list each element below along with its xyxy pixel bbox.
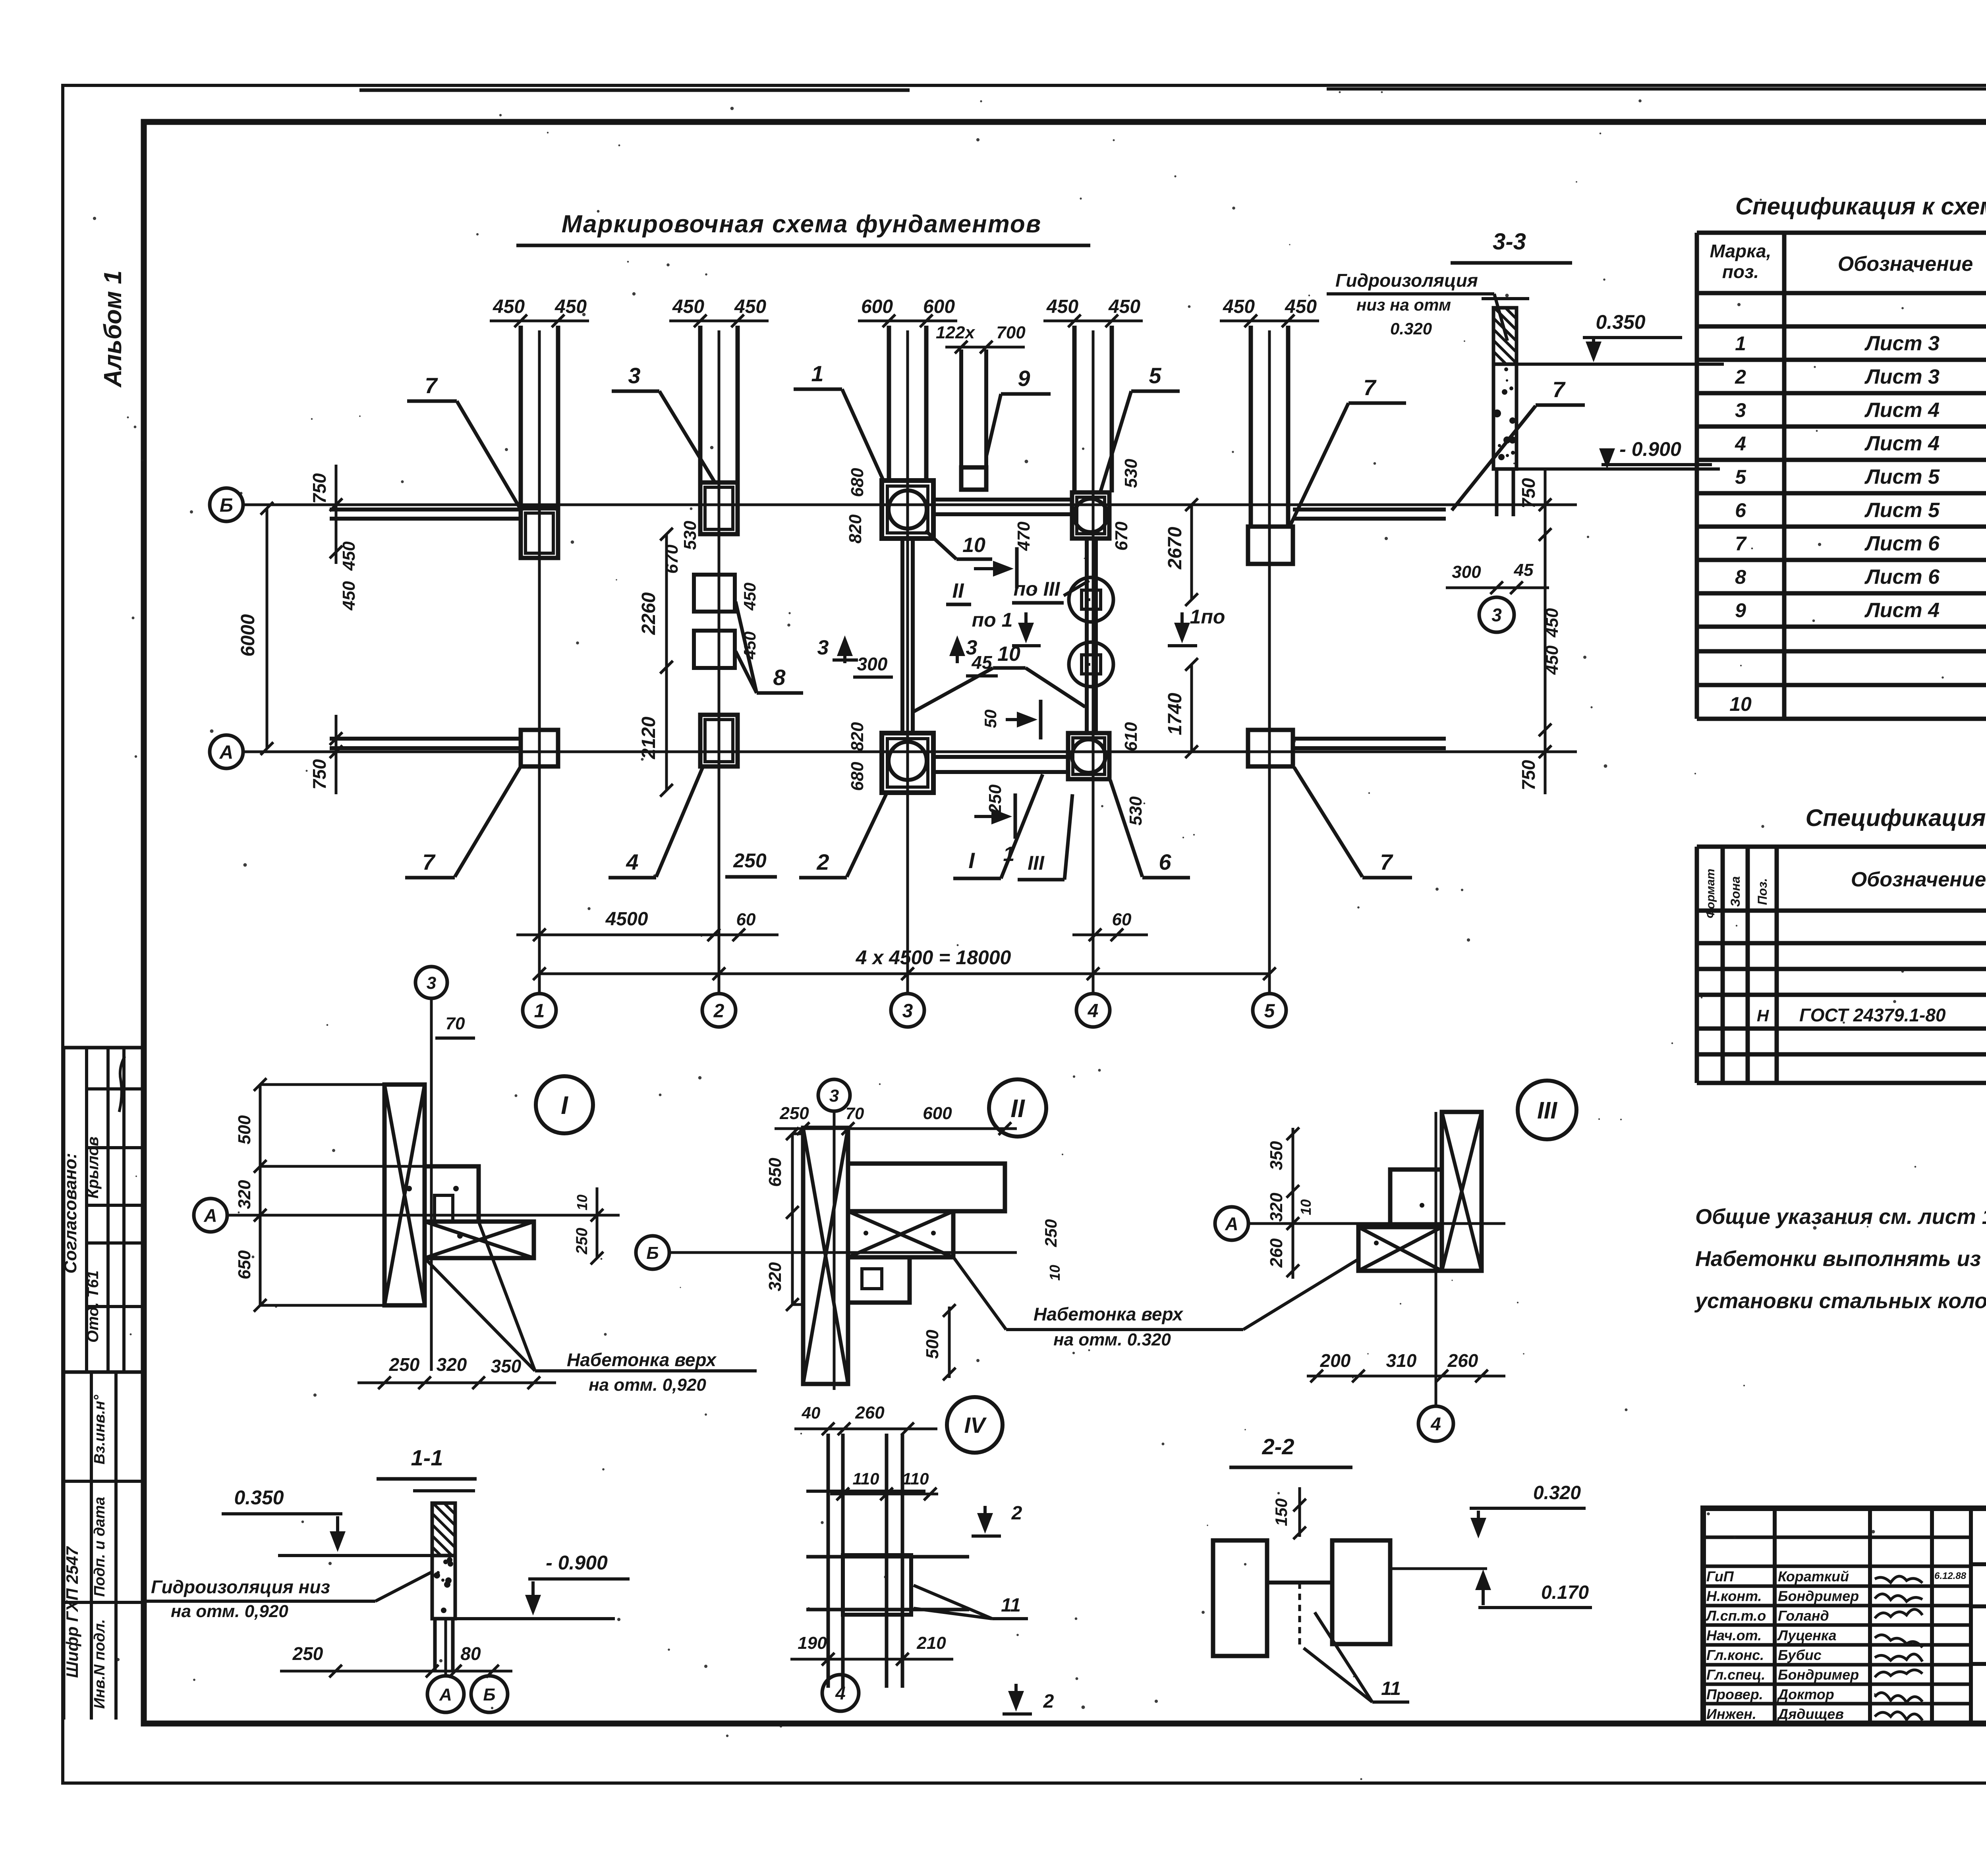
svg-text:300: 300 (1452, 562, 1481, 582)
svg-text:3-3: 3-3 (1493, 229, 1526, 255)
svg-text:Общие указания см. лист 1.: Общие указания см. лист 1. (1695, 1205, 1986, 1229)
svg-text:Обозначение: Обозначение (1838, 253, 1973, 276)
svg-text:на отм. 0,920: на отм. 0,920 (171, 1602, 288, 1621)
svg-text:530: 530 (680, 521, 700, 550)
svg-text:6.12.88: 6.12.88 (1934, 1571, 1967, 1581)
svg-text:10: 10 (574, 1195, 590, 1210)
svg-text:6000: 6000 (238, 614, 259, 656)
svg-text:Б: Б (220, 495, 233, 516)
svg-text:Голанд: Голанд (1778, 1608, 1829, 1624)
svg-text:7: 7 (1552, 377, 1566, 402)
svg-text:Гидроизоляция: Гидроизоляция (1335, 270, 1478, 291)
svg-text:450: 450 (1542, 608, 1562, 638)
svg-text:4: 4 (1735, 432, 1746, 455)
svg-text:7: 7 (1735, 533, 1747, 555)
svg-text:2: 2 (816, 849, 829, 874)
svg-text:260: 260 (1447, 1350, 1478, 1371)
svg-text:Доктор: Доктор (1777, 1686, 1834, 1702)
svg-text:700: 700 (996, 323, 1026, 342)
svg-text:3: 3 (1735, 399, 1746, 421)
svg-text:1: 1 (1735, 332, 1746, 355)
svg-text:Спецификация на элемент констр: Спецификация на элемент конструкции (1806, 805, 1986, 831)
svg-text:Набетонка верх: Набетонка верх (567, 1349, 717, 1370)
svg-text:450: 450 (1542, 645, 1562, 675)
svg-text:10: 10 (1729, 693, 1752, 715)
svg-text:4: 4 (626, 849, 638, 874)
svg-text:Инжен.: Инжен. (1706, 1706, 1756, 1722)
svg-text:50: 50 (981, 710, 1000, 728)
svg-text:Провер.: Провер. (1706, 1686, 1763, 1702)
svg-text:260: 260 (855, 1403, 885, 1422)
svg-text:III: III (1028, 852, 1045, 874)
svg-text:6: 6 (1735, 499, 1746, 521)
svg-text:7: 7 (1380, 849, 1393, 874)
svg-text:Б: Б (483, 1685, 495, 1704)
svg-text:Согласовано:: Согласовано: (61, 1153, 80, 1274)
svg-text:Марка,: Марка, (1710, 241, 1772, 261)
svg-text:Лист 3: Лист 3 (1864, 332, 1940, 355)
svg-text:А: А (439, 1685, 452, 1704)
svg-text:1: 1 (1003, 843, 1015, 866)
svg-text:А: А (203, 1205, 217, 1226)
svg-text:7: 7 (1363, 375, 1377, 400)
svg-text:70: 70 (846, 1104, 864, 1123)
svg-text:11: 11 (1381, 1678, 1401, 1699)
svg-text:0.320: 0.320 (1390, 319, 1432, 338)
svg-text:6: 6 (1159, 849, 1171, 874)
svg-text:750: 750 (309, 759, 330, 789)
svg-text:450: 450 (1108, 296, 1140, 317)
svg-text:5: 5 (1735, 466, 1746, 488)
svg-text:500: 500 (235, 1115, 254, 1145)
svg-text:250: 250 (1041, 1219, 1060, 1247)
svg-text:10: 10 (962, 534, 985, 557)
svg-text:I: I (561, 1091, 568, 1119)
svg-text:600: 600 (923, 1104, 952, 1123)
svg-text:122x: 122x (936, 323, 975, 342)
svg-text:2: 2 (1735, 366, 1746, 388)
svg-text:Лист 5: Лист 5 (1864, 465, 1940, 488)
svg-text:Бубис: Бубис (1778, 1647, 1822, 1663)
svg-text:250: 250 (573, 1228, 591, 1255)
svg-text:680: 680 (848, 762, 867, 791)
svg-text:250: 250 (292, 1643, 323, 1664)
svg-text:670: 670 (662, 544, 682, 574)
svg-text:2260: 2260 (638, 592, 659, 635)
svg-text:470: 470 (1014, 521, 1034, 551)
svg-text:Вз.инв.н°: Вз.инв.н° (91, 1395, 108, 1465)
svg-text:320: 320 (437, 1354, 467, 1375)
svg-text:Шифр ГХП 2547: Шифр ГХП 2547 (63, 1546, 81, 1678)
svg-text:250: 250 (779, 1104, 809, 1123)
svg-text:1: 1 (534, 1000, 545, 1021)
svg-text:II: II (952, 579, 964, 602)
svg-text:Бондример: Бондример (1778, 1667, 1859, 1683)
svg-text:5: 5 (1149, 363, 1161, 388)
svg-text:320: 320 (1267, 1193, 1286, 1222)
svg-text:190: 190 (798, 1633, 827, 1653)
svg-text:IV: IV (964, 1413, 987, 1438)
svg-text:600: 600 (923, 296, 955, 317)
svg-text:10: 10 (1047, 1265, 1063, 1281)
svg-text:Кораткий: Кораткий (1778, 1568, 1849, 1585)
svg-text:Н: Н (1757, 1006, 1770, 1025)
svg-text:4 x 4500 = 18000: 4 x 4500 = 18000 (856, 946, 1011, 969)
svg-text:300: 300 (857, 654, 888, 674)
svg-text:Отд. Т61: Отд. Т61 (84, 1270, 102, 1343)
svg-text:Лист 4: Лист 4 (1864, 599, 1940, 622)
svg-text:820: 820 (848, 722, 867, 751)
svg-text:на отм. 0,920: на отм. 0,920 (589, 1375, 706, 1395)
svg-text:Лист 4: Лист 4 (1864, 399, 1940, 422)
svg-text:150: 150 (1272, 1498, 1291, 1526)
svg-text:Поз.: Поз. (1755, 878, 1770, 905)
svg-text:Гидроизоляция низ: Гидроизоляция низ (151, 1577, 330, 1597)
svg-text:10: 10 (1298, 1199, 1314, 1215)
svg-text:530: 530 (1126, 796, 1146, 826)
svg-text:450: 450 (493, 296, 525, 317)
svg-text:610: 610 (1121, 722, 1141, 751)
svg-text:2120: 2120 (638, 716, 659, 759)
svg-text:2670: 2670 (1165, 527, 1186, 569)
svg-text:Лист 6: Лист 6 (1864, 532, 1940, 555)
svg-text:Н.конт.: Н.конт. (1706, 1588, 1762, 1604)
svg-text:ГиП: ГиП (1706, 1568, 1734, 1585)
svg-text:670: 670 (1112, 521, 1131, 551)
svg-text:- 0.900: - 0.900 (1619, 438, 1681, 460)
svg-text:45: 45 (1514, 560, 1534, 580)
svg-text:250: 250 (985, 784, 1005, 814)
svg-text:250: 250 (389, 1354, 420, 1375)
svg-text:4: 4 (1088, 1000, 1099, 1021)
svg-text:Бондример: Бондример (1778, 1588, 1859, 1604)
svg-text:7: 7 (425, 373, 438, 398)
svg-text:4: 4 (835, 1683, 846, 1704)
svg-text:350: 350 (491, 1356, 522, 1376)
svg-text:40: 40 (802, 1403, 821, 1422)
svg-text:320: 320 (765, 1262, 785, 1291)
svg-text:3: 3 (902, 1000, 913, 1021)
svg-text:I: I (968, 848, 975, 873)
svg-text:Подп. и дата: Подп. и дата (91, 1497, 108, 1597)
svg-text:Набетонки выполнять из бетона: Набетонки выполнять из бетона класса В15… (1695, 1247, 1986, 1271)
svg-text:Зона: Зона (1728, 876, 1743, 907)
svg-text:450: 450 (1223, 296, 1255, 317)
svg-text:530: 530 (1121, 459, 1141, 488)
svg-text:750: 750 (309, 473, 330, 504)
svg-text:750: 750 (1518, 478, 1539, 508)
svg-text:III: III (1537, 1097, 1557, 1124)
svg-text:450: 450 (554, 296, 587, 317)
svg-text:II: II (1010, 1094, 1025, 1123)
svg-text:Б: Б (646, 1243, 659, 1263)
svg-text:11: 11 (1001, 1595, 1021, 1616)
svg-text:Дядищев: Дядищев (1777, 1706, 1844, 1722)
svg-text:5: 5 (1264, 1000, 1275, 1021)
svg-text:1-1: 1-1 (411, 1445, 443, 1470)
svg-text:250: 250 (733, 849, 767, 872)
svg-text:450: 450 (740, 583, 759, 611)
svg-text:650: 650 (235, 1250, 254, 1280)
svg-text:8: 8 (773, 665, 786, 690)
svg-text:450: 450 (339, 581, 359, 611)
svg-text:- 0.900: - 0.900 (546, 1552, 608, 1574)
svg-text:Спецификация к схеме расположе: Спецификация к схеме расположения фундам… (1735, 193, 1986, 220)
svg-text:9: 9 (1018, 366, 1030, 391)
svg-text:Гл.конс.: Гл.конс. (1706, 1647, 1764, 1663)
svg-text:750: 750 (1518, 760, 1539, 790)
svg-text:Набетонка верх: Набетонка верх (1034, 1304, 1184, 1324)
svg-text:3: 3 (1491, 605, 1502, 625)
svg-text:Лист 4: Лист 4 (1864, 432, 1940, 455)
svg-text:Альбом 1: Альбом 1 (99, 270, 127, 388)
svg-text:450: 450 (339, 541, 359, 571)
svg-text:4500: 4500 (605, 909, 648, 930)
svg-text:А: А (1225, 1214, 1238, 1234)
svg-text:А: А (219, 742, 234, 763)
svg-text:10: 10 (997, 643, 1020, 666)
svg-text:Лист 6: Лист 6 (1864, 566, 1940, 589)
svg-text:500: 500 (923, 1330, 942, 1359)
svg-text:Крылов: Крылов (84, 1137, 102, 1199)
svg-text:200: 200 (1320, 1350, 1351, 1371)
svg-text:110: 110 (853, 1469, 879, 1488)
svg-text:60: 60 (736, 910, 756, 929)
svg-text:низ на отм: низ на отм (1356, 295, 1451, 314)
svg-text:1: 1 (811, 361, 823, 386)
svg-text:Луценка: Луценка (1777, 1627, 1837, 1644)
svg-text:310: 310 (1386, 1350, 1417, 1371)
svg-text:8: 8 (1735, 566, 1746, 588)
svg-text:450: 450 (734, 296, 766, 317)
svg-text:450: 450 (1046, 296, 1078, 317)
svg-text:0.320: 0.320 (1533, 1482, 1581, 1504)
svg-text:70: 70 (446, 1014, 465, 1033)
svg-text:680: 680 (848, 468, 867, 497)
svg-text:3: 3 (628, 363, 640, 388)
svg-text:650: 650 (765, 1158, 785, 1187)
svg-text:0.350: 0.350 (234, 1486, 284, 1509)
svg-text:0.350: 0.350 (1596, 311, 1645, 333)
svg-text:600: 600 (861, 296, 893, 317)
svg-text:9: 9 (1735, 599, 1746, 621)
svg-text:Инв.N подл.: Инв.N подл. (91, 1619, 108, 1709)
svg-text:2-2: 2-2 (1262, 1434, 1294, 1459)
svg-text:Л.сп.т.о: Л.сп.т.о (1705, 1608, 1766, 1624)
svg-text:60: 60 (1112, 910, 1132, 929)
svg-text:поз.: поз. (1722, 261, 1759, 282)
svg-text:Маркировочная схема фундаменто: Маркировочная схема фундаментов (562, 210, 1041, 238)
svg-text:110: 110 (902, 1469, 929, 1488)
svg-text:820: 820 (846, 514, 865, 544)
svg-text:по III: по III (1014, 578, 1061, 600)
svg-text:Обозначение: Обозначение (1851, 868, 1986, 891)
svg-text:установки стальных колонн.: установки стальных колонн. (1694, 1289, 1986, 1313)
svg-text:320: 320 (235, 1180, 254, 1209)
svg-text:Формат: Формат (1704, 869, 1717, 918)
svg-text:3: 3 (829, 1086, 839, 1106)
svg-text:Лист 3: Лист 3 (1864, 365, 1940, 388)
svg-text:450: 450 (1285, 296, 1317, 317)
svg-text:2: 2 (1043, 1691, 1054, 1712)
svg-text:260: 260 (1267, 1238, 1286, 1268)
svg-text:450: 450 (740, 631, 759, 660)
svg-text:на отм. 0.320: на отм. 0.320 (1053, 1330, 1171, 1349)
svg-text:Лист 5: Лист 5 (1864, 499, 1940, 522)
svg-text:Гл.спец.: Гл.спец. (1706, 1667, 1765, 1683)
svg-text:7: 7 (422, 849, 436, 874)
svg-text:350: 350 (1267, 1141, 1286, 1170)
svg-text:80: 80 (460, 1643, 481, 1664)
svg-text:1740: 1740 (1165, 693, 1186, 735)
svg-text:2: 2 (1011, 1503, 1022, 1524)
svg-text:3: 3 (427, 973, 436, 993)
svg-text:2: 2 (713, 1000, 724, 1021)
svg-text:по 1: по 1 (972, 609, 1013, 631)
svg-text:4: 4 (1430, 1414, 1441, 1434)
svg-text:1по: 1по (1190, 606, 1225, 628)
svg-text:Нач.от.: Нач.от. (1706, 1627, 1762, 1644)
svg-text:ГОСТ 24379.1-80: ГОСТ 24379.1-80 (1799, 1005, 1946, 1025)
svg-text:210: 210 (916, 1633, 946, 1653)
svg-text:0.170: 0.170 (1541, 1582, 1589, 1603)
svg-text:450: 450 (672, 296, 704, 317)
svg-text:3: 3 (817, 636, 829, 659)
